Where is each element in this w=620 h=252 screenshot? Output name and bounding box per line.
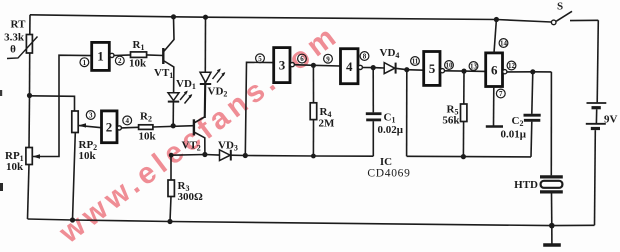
junction C1 top — [371, 65, 376, 70]
wire emitter node line — [171, 154, 220, 157]
transistor VT1 — [154, 17, 174, 93]
scan artifact left edge 2 — [0, 90, 2, 96]
pin 11 label — [411, 57, 420, 66]
wire node A to RP2 top — [30, 96, 75, 111]
pin 4 label — [123, 116, 132, 125]
svg-text:1: 1 — [83, 59, 87, 67]
wire node A to RP1 — [28, 96, 31, 148]
svg-text:S: S — [557, 1, 563, 13]
inverter gate U6 — [486, 53, 507, 87]
battery 9V — [586, 20, 618, 225]
wire VD3 node up to gate 3 input — [245, 62, 273, 155]
junction RP2 on ground rail — [70, 217, 75, 222]
wire RT column — [29, 15, 31, 35]
capacitor C1 — [366, 68, 404, 157]
svg-text:14: 14 — [500, 40, 508, 48]
wire pin14 to rail — [494, 20, 496, 53]
pin 5 label — [256, 54, 265, 63]
LED VD2 — [200, 17, 228, 118]
wire top rail — [30, 15, 551, 22]
ground symbol — [543, 226, 561, 245]
svg-text:11: 11 — [412, 58, 419, 66]
svg-text:300Ω: 300Ω — [178, 191, 204, 203]
wire pin7 down — [493, 87, 495, 127]
thermistor RT — [4, 19, 37, 59]
resistor R2 — [121, 111, 193, 143]
junction R5 top — [461, 69, 466, 74]
pin 9 label — [324, 54, 333, 63]
pin 14 label — [499, 39, 508, 48]
inverter gate U4 — [341, 49, 363, 84]
pin 13 label — [469, 62, 478, 71]
svg-text:2M: 2M — [319, 118, 336, 130]
wire gate3 out to gate4 in — [294, 65, 340, 66]
wire RP2 wiper to gate 2 input — [78, 125, 101, 127]
junction R3 top — [169, 153, 174, 158]
svg-text:8: 8 — [363, 53, 367, 61]
svg-text:10k: 10k — [129, 58, 147, 70]
watermark — [53, 18, 346, 250]
svg-text:IC: IC — [380, 156, 392, 168]
svg-text:1: 1 — [97, 49, 104, 64]
svg-text:7: 7 — [499, 90, 503, 98]
inverter gate U5 — [424, 52, 445, 86]
svg-text:6: 6 — [300, 55, 304, 63]
resistor R5 — [442, 71, 467, 157]
svg-text:10k: 10k — [138, 131, 156, 143]
pin 1 label — [80, 58, 89, 67]
wire gate6 out to HTD column — [507, 71, 551, 73]
ground pin7 bar — [486, 125, 503, 128]
svg-text:13: 13 — [470, 63, 478, 71]
inverter gate U2 — [102, 111, 122, 143]
wire oscillator feedback net (left) — [245, 155, 373, 158]
svg-text:3: 3 — [89, 112, 93, 120]
junction R4 bottom — [311, 154, 316, 159]
scan artifact left edge — [0, 183, 3, 191]
svg-text:5: 5 — [429, 61, 436, 76]
pin 3 label — [86, 111, 95, 120]
label IC CD4069 — [367, 156, 410, 180]
LED VD1 — [168, 78, 196, 126]
wire RP1 to ground rail — [28, 165, 30, 220]
pin 10 label — [445, 61, 454, 70]
svg-text:θ: θ — [10, 44, 16, 56]
junction C2 top — [530, 69, 535, 74]
wire RP1 wiper to gate 1 input — [32, 55, 91, 156]
resistor R1 — [114, 39, 163, 70]
diode VD3 — [218, 140, 245, 161]
wire oscillator feedback net (right) — [407, 155, 531, 158]
pin 6 label — [298, 54, 307, 63]
diode VD4 — [380, 47, 407, 74]
svg-text:56k: 56k — [442, 115, 460, 127]
svg-text:10k: 10k — [79, 150, 97, 162]
pin 12 label — [507, 61, 516, 70]
wire node to gate5 input — [407, 69, 424, 72]
wire node down to feedback net — [406, 70, 408, 157]
junction VT1 collector on rail — [171, 14, 176, 19]
wire gate5 out to gate6 in — [445, 70, 486, 73]
svg-text:6: 6 — [491, 63, 498, 78]
inverter gate U3 — [274, 48, 295, 83]
inverter gate U1 — [92, 42, 114, 70]
svg-text:10k: 10k — [6, 161, 24, 173]
pin 8 label — [360, 52, 369, 61]
wire RP2 bottom to ground rail — [73, 133, 76, 221]
resistor R3 — [168, 155, 203, 221]
svg-text:2: 2 — [106, 120, 113, 135]
pin 7 label — [496, 89, 505, 98]
junction pin14 on rail — [494, 17, 499, 22]
junction R4 top — [311, 63, 316, 68]
junction VD1 cathode / R2 / VT2 base — [171, 123, 176, 128]
svg-text:4: 4 — [125, 117, 129, 125]
junction VD3 cathode — [243, 153, 248, 158]
wire bottom ground rail — [28, 219, 595, 226]
potentiometer RP2 — [72, 111, 97, 162]
svg-text:9V: 9V — [604, 114, 618, 126]
svg-text:10: 10 — [446, 62, 454, 70]
junction gate5 input node — [404, 67, 409, 72]
svg-text:5: 5 — [258, 55, 262, 63]
potentiometer RP1 — [5, 148, 40, 174]
buzzer HTD — [514, 72, 563, 226]
svg-text:3.3k: 3.3k — [4, 32, 25, 44]
svg-text:RT: RT — [11, 19, 27, 31]
svg-text:2: 2 — [118, 57, 122, 65]
junction R5 bottom — [461, 154, 466, 159]
svg-text:CD4069: CD4069 — [367, 168, 410, 180]
junction HTD on ground rail — [549, 223, 555, 229]
svg-text:0.02μ: 0.02μ — [378, 124, 404, 136]
svg-text:9: 9 — [326, 55, 330, 63]
resistor R4 — [310, 65, 335, 156]
junction VT2 emitter — [202, 152, 207, 157]
junction VD2 on rail — [203, 15, 208, 20]
svg-text:4: 4 — [346, 59, 353, 74]
svg-text:0.01μ: 0.01μ — [501, 129, 527, 141]
svg-text:12: 12 — [508, 62, 516, 70]
node A junction — [27, 93, 32, 98]
wire gate4 out to VD4 — [362, 67, 384, 70]
junction R3 on ground rail — [167, 219, 172, 224]
switch S — [551, 1, 598, 25]
pin 2 label — [115, 56, 124, 65]
wire RT to node A — [29, 53, 31, 96]
svg-text:3: 3 — [279, 58, 286, 73]
capacitor C2 — [501, 72, 541, 157]
transistor VT2 — [182, 81, 206, 155]
svg-text:HTD: HTD — [514, 179, 538, 191]
